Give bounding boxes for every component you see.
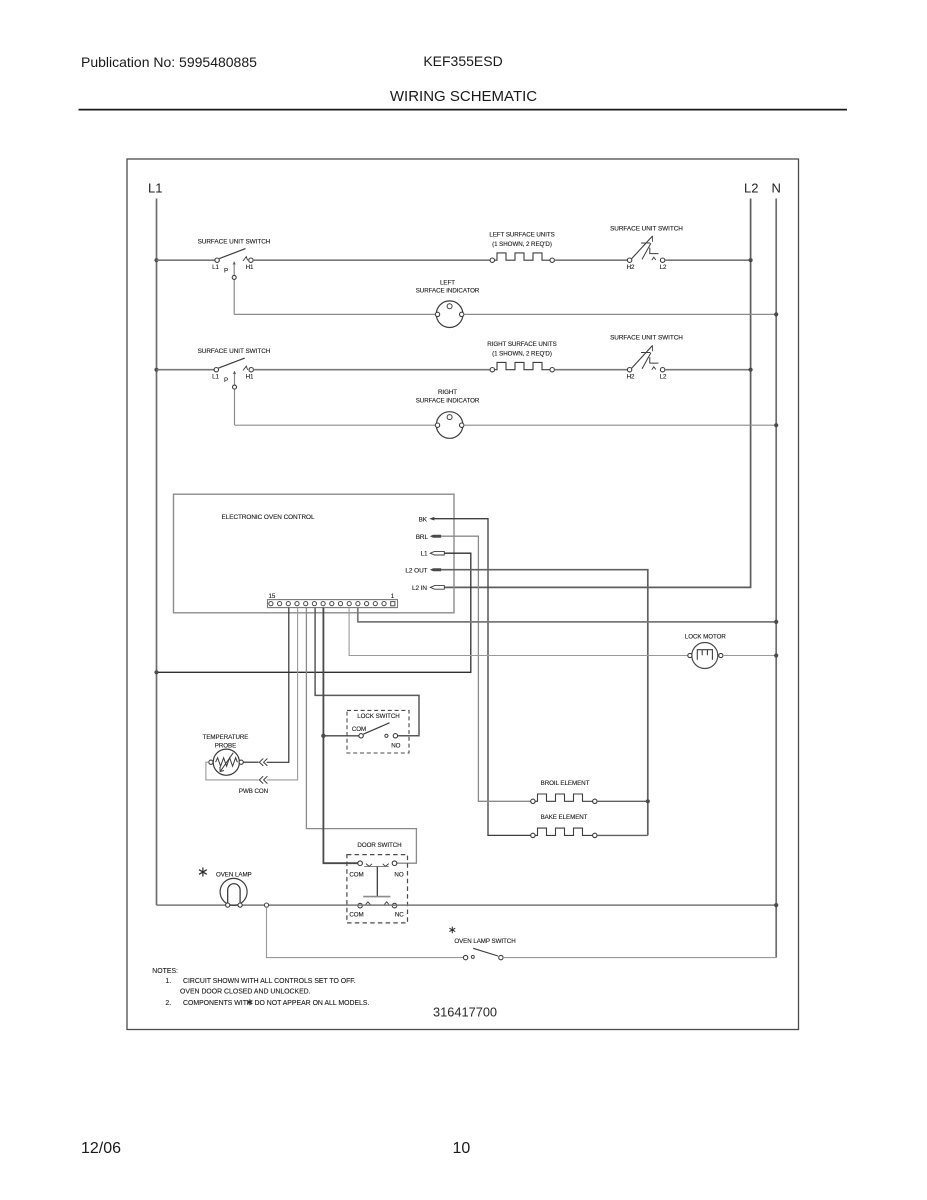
svg-text:COM: COM [349, 912, 363, 919]
node open junction lamp switch tap [264, 903, 268, 907]
wire indicator to N row1 [464, 313, 776, 315]
svg-text:COM: COM [349, 872, 363, 879]
svg-text:L2: L2 [660, 373, 667, 380]
wire P to indicator row2 [235, 424, 436, 426]
component marker asterisk oven lamp [199, 868, 207, 877]
wire switch to L2 row1 [665, 259, 751, 261]
schematic border frame [127, 159, 799, 1030]
wire element to switch row2 [554, 369, 627, 371]
svg-text:OVEN LAMP SWITCH: OVEN LAMP SWITCH [454, 938, 515, 945]
svg-text:BROIL ELEMENT: BROIL ELEMENT [541, 780, 590, 787]
switch door switch upper pole [358, 861, 397, 897]
svg-text:WIRING SCHEMATIC: WIRING SCHEMATIC [390, 88, 537, 105]
switch oven lamp switch [463, 948, 503, 960]
svg-text:NO: NO [394, 872, 403, 879]
svg-text:BK: BK [419, 516, 428, 523]
wire L1 bus vertical [156, 199, 158, 906]
motor lock motor [688, 643, 723, 669]
svg-text:L1: L1 [420, 551, 428, 558]
node junction N terminal5 [774, 620, 778, 624]
svg-text:BRL: BRL [416, 534, 429, 541]
wire N bus vertical [775, 199, 777, 958]
switch right surface unit: blade [219, 358, 245, 368]
svg-text:PROBE: PROBE [215, 742, 236, 749]
node junction L2 row1 [749, 258, 753, 262]
wire terminal 5 to N [358, 608, 776, 622]
svg-text:L1: L1 [212, 264, 219, 271]
wire terminal 12 to probe return [267, 608, 298, 780]
svg-text:COMPONENTS WITH: COMPONENTS WITH [183, 1000, 252, 1007]
resistor bake element [531, 828, 597, 838]
wire lamp switch to N [503, 957, 776, 959]
svg-text:N: N [772, 181, 781, 196]
wire junction to lock switch COM [323, 735, 359, 737]
svg-text:LOCK SWITCH: LOCK SWITCH [357, 713, 399, 720]
wire terminal 10 to lock switch NO [315, 608, 419, 736]
node junction L1 row1 [154, 258, 158, 262]
svg-text:P: P [224, 377, 228, 384]
svg-text:DO NOT APPEAR ON ALL MODELS.: DO NOT APPEAR ON ALL MODELS. [255, 1000, 370, 1007]
wire L2 bus vertical and L2 IN run [445, 199, 751, 588]
svg-text:KEF355ESD: KEF355ESD [423, 53, 502, 69]
node junction L1 row2 [154, 368, 158, 372]
svg-text:P: P [224, 267, 228, 274]
wire indicator to N row2 [464, 424, 776, 426]
switch right surface unit: terminal H1 [249, 368, 253, 372]
switch left surface unit: contact arrow [243, 257, 248, 261]
svg-text:L2: L2 [744, 181, 758, 196]
svg-text:RIGHT: RIGHT [438, 389, 457, 396]
svg-text:DOOR SWITCH: DOOR SWITCH [357, 842, 401, 849]
svg-text:1: 1 [391, 593, 395, 600]
switch right surface unit: contact arrow [243, 366, 248, 370]
connector chevrons probe return [259, 776, 267, 783]
resistor temperature probe [209, 749, 244, 775]
header rule [79, 109, 848, 111]
component marker asterisk in note 2 [247, 999, 252, 1005]
switch door switch lower pole [358, 902, 397, 908]
wire BK to bake element [434, 519, 531, 836]
svg-text:L2 IN: L2 IN [412, 585, 427, 592]
resistor broil element [531, 794, 597, 804]
svg-text:SURFACE UNIT SWITCH: SURFACE UNIT SWITCH [610, 226, 683, 233]
notes text [152, 968, 369, 1007]
svg-text:SURFACE INDICATOR: SURFACE INDICATOR [416, 397, 480, 404]
svg-text:LOCK MOTOR: LOCK MOTOR [685, 634, 727, 641]
lamp right surface indicator [435, 412, 464, 439]
svg-text:LEFT: LEFT [440, 279, 455, 286]
svg-text:OVEN LAMP: OVEN LAMP [216, 871, 252, 878]
svg-text:NO: NO [391, 743, 400, 750]
wire terminal 13 to temperature probe [267, 608, 289, 763]
lamp left surface indicator [435, 301, 464, 328]
svg-text:L2: L2 [660, 264, 667, 271]
wire switch to L2 row2 [665, 369, 751, 371]
svg-text:PWB CON: PWB CON [239, 788, 268, 795]
wire terminal 11 to door switch NO [306, 608, 416, 864]
connector chevrons probe lead [259, 759, 267, 766]
svg-text:RIGHT SURFACE UNITS: RIGHT SURFACE UNITS [487, 341, 556, 348]
svg-text:10: 10 [453, 1140, 471, 1157]
svg-text:15: 15 [269, 593, 276, 600]
svg-text:(1 SHOWN, 2 REQ'D): (1 SHOWN, 2 REQ'D) [492, 241, 552, 248]
svg-text:L2 OUT: L2 OUT [405, 567, 427, 574]
wire row1 switch to element [253, 259, 490, 261]
svg-text:Publication No: 5995480885: Publication No: 5995480885 [81, 54, 257, 70]
svg-text:NOTES:: NOTES: [152, 968, 178, 975]
wire BRL to broil element [441, 536, 531, 801]
node junction N lock motor [774, 653, 778, 657]
svg-text:SURFACE UNIT SWITCH: SURFACE UNIT SWITCH [198, 348, 271, 355]
component marker asterisk oven lamp switch [449, 927, 455, 934]
wire bottom bus L1 to N [157, 904, 777, 906]
op-amp U1 electronic oven control box [174, 494, 455, 613]
wire row2 switch to element [253, 369, 490, 371]
switch lock switch [359, 723, 398, 738]
switch left surface unit: terminal H1 [249, 258, 253, 262]
svg-text:SURFACE UNIT SWITCH: SURFACE UNIT SWITCH [610, 334, 683, 341]
node junction N row1 [774, 312, 778, 316]
svg-text:OVEN DOOR CLOSED AND UNLOCKED.: OVEN DOOR CLOSED AND UNLOCKED. [180, 989, 311, 996]
wire L2 OUT to elements right side [441, 570, 648, 836]
switch left surface unit: blade [219, 249, 245, 259]
svg-text:12/06: 12/06 [81, 1140, 121, 1157]
node junction lock switch COM tap [321, 734, 325, 738]
terminal strip of EOC [268, 600, 398, 608]
svg-text:316417700: 316417700 [433, 1004, 497, 1019]
wire bake element to L2 OUT riser [597, 834, 648, 836]
wire probe left lead return [206, 762, 259, 780]
svg-text:TEMPERATURE: TEMPERATURE [203, 734, 249, 741]
node junction N row2 [774, 423, 778, 427]
switch infinite switch row1 [627, 236, 664, 263]
svg-text:H1: H1 [246, 373, 254, 380]
svg-text:L1: L1 [148, 181, 162, 196]
svg-text:LEFT SURFACE UNITS: LEFT SURFACE UNITS [489, 232, 554, 239]
svg-text:L1: L1 [212, 373, 219, 380]
svg-text:1.: 1. [165, 978, 171, 985]
node junction N bottom bus [774, 903, 778, 907]
node junction broil L2 [646, 799, 650, 803]
svg-text:ELECTRONIC OVEN CONTROL: ELECTRONIC OVEN CONTROL [222, 514, 315, 521]
switch left surface unit: terminal L1 [215, 258, 219, 262]
switch right surface unit: terminal L1 [214, 368, 218, 372]
wire terminal 6 to lock motor [349, 608, 688, 656]
switch lock switch enclosure (dashed) [347, 710, 409, 753]
wire element to switch row1 [554, 259, 627, 261]
wire row2 P branch with terminal [234, 371, 236, 425]
svg-text:H2: H2 [627, 373, 635, 380]
svg-text:NC: NC [395, 912, 404, 919]
wire L1 pin to L1 bus [157, 553, 471, 672]
node junction L1 EOC [154, 670, 158, 674]
wire row1 P branch with terminal [233, 262, 235, 315]
wire lamp switch feed [267, 907, 464, 957]
switch door switch enclosure (dashed) [347, 855, 408, 923]
svg-text:2.: 2. [165, 1000, 171, 1007]
switch infinite switch row2 [627, 345, 664, 372]
wire terminal 9 to door switch COM [323, 608, 357, 864]
wire P to indicator row1 [234, 313, 435, 315]
svg-text:SURFACE INDICATOR: SURFACE INDICATOR [416, 288, 480, 295]
svg-text:CIRCUIT SHOWN WITH ALL CONTROL: CIRCUIT SHOWN WITH ALL CONTROLS SET TO O… [183, 978, 356, 985]
wire lock motor to N [723, 655, 776, 657]
svg-text:BAKE ELEMENT: BAKE ELEMENT [541, 814, 588, 821]
lamp oven lamp [220, 878, 247, 907]
wire broil element to L2 OUT riser [597, 800, 648, 802]
svg-text:COM: COM [352, 726, 366, 733]
resistor left surface element [490, 253, 554, 263]
wire row2 L1 to switch [157, 369, 215, 371]
wire probe right lead [243, 761, 258, 763]
resistor right surface element [490, 362, 554, 372]
svg-text:SURFACE UNIT SWITCH: SURFACE UNIT SWITCH [198, 238, 271, 245]
svg-text:H2: H2 [627, 264, 635, 271]
svg-text:(1 SHOWN, 2 REQ'D): (1 SHOWN, 2 REQ'D) [492, 351, 552, 358]
node junction L2 row2 [749, 368, 753, 372]
svg-text:H1: H1 [246, 264, 254, 271]
wire row1 L1 to switch [157, 259, 216, 261]
